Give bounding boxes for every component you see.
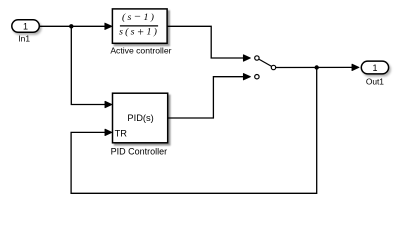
svg-text:PID(s): PID(s) xyxy=(127,113,153,123)
svg-text:Out1: Out1 xyxy=(366,77,384,87)
inport In1 xyxy=(12,20,40,44)
svg-text:In1: In1 xyxy=(18,34,30,44)
svg-text:1: 1 xyxy=(372,63,377,73)
wire Active controller to switch upper input xyxy=(167,26,250,61)
wire feedback to PID TR input xyxy=(71,68,317,194)
wire switch to Out1 xyxy=(276,64,359,70)
transfer function block U1 Active controller xyxy=(110,9,171,55)
wire In1 to Active controller xyxy=(40,23,112,29)
wire PID Controller to switch lower input xyxy=(168,74,251,119)
svg-text:s(s+1): s(s+1) xyxy=(119,27,157,39)
manual switch S1 xyxy=(255,56,276,79)
outport Out1 xyxy=(361,61,388,86)
node junction on In1 wire xyxy=(69,24,73,28)
svg-text:TR: TR xyxy=(115,128,128,138)
node junction on output wire xyxy=(315,65,319,69)
svg-text:1: 1 xyxy=(23,21,28,31)
wire branch to PID input 1 xyxy=(71,26,112,107)
svg-text:PID Controller: PID Controller xyxy=(111,147,168,157)
svg-text:Active controller: Active controller xyxy=(110,45,171,55)
PID controller block U2 xyxy=(111,93,168,157)
